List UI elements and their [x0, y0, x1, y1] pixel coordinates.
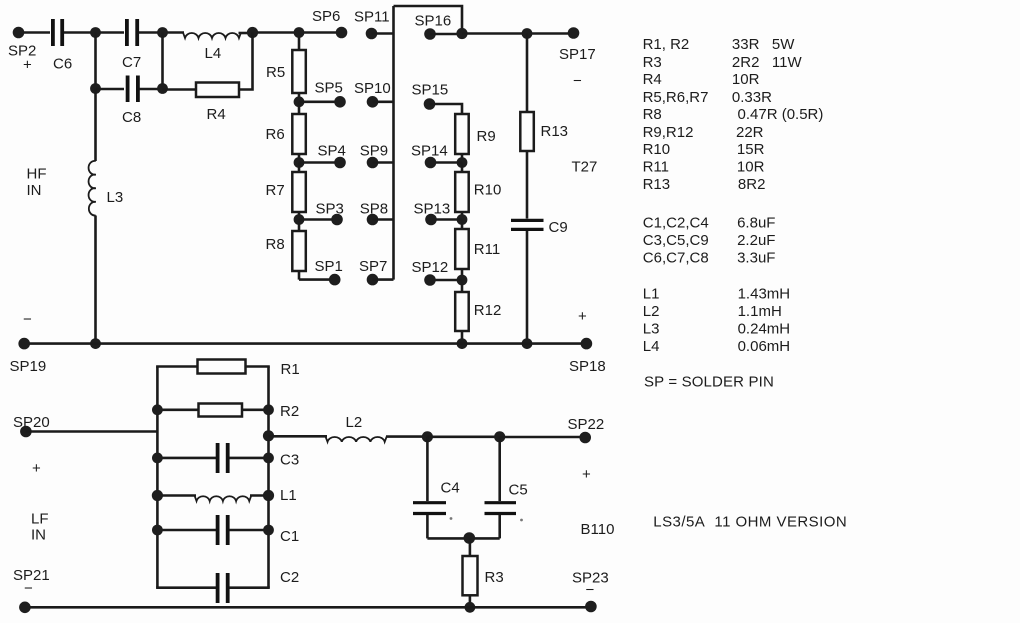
wire L4 node C to R5 top and SP6	[253, 31, 342, 34]
label LF IN	[31, 511, 49, 544]
value label R8 = 0.47R (0.5R)	[643, 106, 824, 123]
svg-text:L2: L2	[346, 414, 363, 431]
svg-text:SP9: SP9	[360, 143, 388, 160]
bus top link to SP16 node	[394, 6, 463, 34]
wire C7 to node B	[139, 31, 184, 34]
svg-text:+: +	[23, 57, 32, 74]
value label R11 = 10R	[643, 158, 765, 175]
resistor R4	[196, 83, 239, 124]
value label R4 = 10R	[643, 71, 760, 88]
svg-text:−: −	[586, 582, 595, 599]
svg-text:IN: IN	[27, 182, 42, 199]
svg-text:0.47R (0.5R): 0.47R (0.5R)	[738, 106, 824, 123]
svg-text:SP16: SP16	[415, 13, 452, 30]
svg-text:6.8uF: 6.8uF	[737, 215, 775, 232]
svg-text:SP17: SP17	[559, 46, 596, 63]
LF bottom rail wire	[25, 606, 591, 609]
svg-text:C5: C5	[509, 482, 528, 499]
wire node D to SP17	[462, 32, 574, 35]
solder pin SP20	[13, 414, 50, 477]
speck near C4	[450, 517, 453, 520]
node C1 left	[152, 525, 163, 536]
wire C5 bottom lead	[498, 515, 501, 538]
wire L2 to node F	[386, 435, 427, 438]
svg-text:−: −	[24, 580, 33, 597]
node R5 top	[294, 27, 305, 38]
svg-text:SP3: SP3	[316, 200, 344, 217]
solder pin SP9	[360, 143, 388, 169]
node K1	[457, 157, 468, 168]
svg-text:SP22: SP22	[568, 416, 605, 433]
node J2	[294, 157, 305, 168]
svg-text:−: −	[23, 311, 32, 328]
wire node H to R3	[469, 538, 472, 556]
svg-text:R3: R3	[643, 54, 662, 71]
node J3	[294, 214, 305, 225]
svg-text:10R: 10R	[732, 71, 760, 88]
svg-text:R13: R13	[541, 123, 569, 140]
svg-text:R8: R8	[643, 106, 662, 123]
capacitor C4	[413, 480, 460, 514]
svg-text:R10: R10	[474, 181, 502, 198]
wire SP16 to node D	[430, 33, 462, 36]
svg-text:R13: R13	[643, 176, 671, 193]
wire node F to node G	[427, 435, 499, 438]
svg-text:C9: C9	[549, 219, 568, 236]
svg-text:R8: R8	[266, 236, 285, 253]
wire right bus to L2	[269, 435, 328, 438]
solder pin SP8	[360, 200, 388, 225]
svg-text:C2: C2	[280, 569, 299, 586]
svg-text:2.2uF: 2.2uF	[737, 232, 775, 249]
wire R4 up to node C	[239, 33, 253, 90]
node L1 left	[152, 490, 163, 501]
resistor R10	[455, 163, 501, 221]
wire B2 to R4	[163, 88, 197, 91]
wire SP9 to bus	[373, 161, 394, 164]
inductor L1	[195, 487, 297, 504]
wire R3 to LF bottom rail	[469, 595, 472, 607]
wire C4-C5 bottom connector	[427, 537, 499, 540]
label HF IN	[27, 166, 47, 200]
svg-text:R11: R11	[643, 158, 669, 175]
solder pin SP19	[10, 311, 47, 375]
wire R2 right	[242, 408, 269, 411]
svg-text:IN: IN	[31, 527, 46, 544]
solder pin SP14	[411, 143, 448, 169]
svg-text:R11: R11	[474, 241, 500, 258]
value label C3,C5,C9 = 2.2uF	[643, 232, 776, 249]
svg-text:R1: R1	[281, 361, 300, 378]
svg-text:R12: R12	[474, 302, 502, 319]
node K3	[457, 275, 468, 286]
svg-text:R4: R4	[643, 71, 662, 88]
svg-text:SP5: SP5	[315, 80, 343, 97]
wire C3 right	[229, 457, 268, 460]
resistor R5	[266, 33, 306, 103]
resistor R7	[266, 163, 306, 221]
wire SP15 to R9 top	[430, 104, 463, 114]
wire top edge left	[156, 365, 197, 368]
svg-text:SP7: SP7	[359, 258, 387, 275]
svg-text:SP4: SP4	[318, 143, 346, 160]
svg-text:L2: L2	[643, 303, 660, 320]
svg-text:SP6: SP6	[312, 8, 340, 25]
node R2 right	[263, 404, 274, 415]
svg-text:C3,C5,C9: C3,C5,C9	[643, 232, 709, 249]
value label C1,C2,C4 = 6.8uF	[643, 215, 776, 232]
resistor R11	[455, 220, 500, 281]
svg-text:L4: L4	[643, 338, 660, 355]
svg-text:L4: L4	[205, 45, 222, 62]
svg-text:15R: 15R	[737, 141, 765, 158]
svg-text:B110: B110	[581, 521, 615, 538]
svg-text:SP10: SP10	[354, 80, 391, 97]
value label R10 = 15R	[643, 141, 765, 158]
svg-text:SP14: SP14	[411, 143, 448, 160]
wire R13 to C9	[526, 151, 529, 219]
wire C8 to node B2	[140, 88, 163, 91]
solder pin SP10	[354, 80, 391, 108]
svg-text:0.06mH: 0.06mH	[738, 338, 791, 355]
wire node G to SP22	[500, 436, 586, 439]
wire bottom edge right	[229, 586, 269, 589]
LF right bus	[267, 367, 270, 588]
svg-text:10R: 10R	[737, 158, 765, 175]
svg-text:HF: HF	[27, 166, 47, 183]
node A2	[90, 83, 101, 94]
capacitor C8	[122, 76, 141, 127]
node E (R13 top)	[522, 28, 533, 39]
bus vertical line	[392, 6, 395, 280]
solder pin SP11	[354, 9, 390, 40]
svg-text:R4: R4	[207, 106, 226, 123]
wire K1 to SP14	[431, 161, 463, 164]
svg-text:R6: R6	[266, 126, 285, 143]
node R3 bottom	[465, 602, 476, 613]
wire K2 to SP13	[431, 218, 462, 221]
svg-text:+: +	[582, 466, 591, 483]
svg-text:R5,R6,R7: R5,R6,R7	[643, 89, 709, 106]
inductor L2	[326, 414, 387, 442]
svg-text:1.43mH: 1.43mH	[738, 286, 791, 303]
svg-text:0.24mH: 0.24mH	[738, 320, 791, 337]
capacitor C3	[218, 443, 300, 473]
resistor R12	[455, 280, 501, 344]
solder pin SP16	[415, 13, 452, 40]
svg-text:+: +	[578, 308, 587, 325]
node C3 right	[263, 453, 274, 464]
node R12 bottom	[457, 338, 468, 349]
wire SP7 to bus	[373, 278, 394, 281]
svg-text:SP11: SP11	[354, 9, 390, 26]
wire SP20 to LF left bus	[26, 430, 158, 433]
svg-text:LF: LF	[31, 511, 49, 528]
svg-text:L3: L3	[643, 320, 660, 337]
wire L1 right	[250, 494, 269, 497]
wire C4 bottom lead	[426, 515, 429, 538]
svg-text:SP18: SP18	[569, 358, 606, 375]
solder pin SP7	[359, 258, 387, 285]
node B2	[157, 83, 168, 94]
wire A2 to C8	[96, 88, 125, 91]
svg-text:C4: C4	[441, 480, 460, 497]
wire C9 to HF bottom rail	[526, 231, 529, 344]
solder pin SP1	[315, 258, 343, 285]
solder pin SP18	[569, 308, 606, 375]
node J1	[294, 96, 305, 107]
svg-text:C1,C2,C4: C1,C2,C4	[643, 215, 709, 232]
value label L1 = 1.43mH	[643, 286, 790, 303]
resistor R1	[198, 360, 300, 379]
solder pin SP13	[414, 200, 451, 225]
wire SP11 to bus	[372, 32, 394, 35]
solder pin SP3	[316, 200, 344, 225]
svg-text:R5: R5	[266, 64, 285, 81]
inductor L3	[89, 161, 124, 216]
svg-text:C1: C1	[280, 528, 299, 545]
svg-text:R9,R12: R9,R12	[643, 124, 694, 141]
wire node E down to R13	[526, 34, 529, 113]
svg-text:SP15: SP15	[412, 82, 449, 99]
node C3 left	[152, 453, 163, 464]
wire top edge right	[246, 365, 270, 368]
capacitor C5	[485, 482, 528, 514]
svg-text:R3: R3	[485, 569, 504, 586]
resistor R2	[199, 403, 300, 420]
inductor L4	[183, 33, 253, 63]
value label R9,R12 = 22R	[643, 124, 764, 141]
node L3 bottom	[90, 338, 101, 349]
node C1 right	[263, 525, 274, 536]
value label L4 = 0.06mH	[643, 338, 790, 355]
wire R8 bottom to SP1	[299, 278, 335, 281]
svg-text:C6: C6	[53, 56, 72, 73]
value label C6,C7,C8 = 3.3uF	[643, 250, 776, 267]
speck near C5	[520, 519, 523, 522]
node L1 right	[263, 490, 274, 501]
svg-text:C8: C8	[122, 109, 141, 126]
solder pin SP17	[559, 27, 596, 89]
wire R2 left	[157, 408, 198, 411]
svg-text:SP12: SP12	[412, 259, 449, 276]
wire K3 to SP12	[430, 279, 462, 282]
svg-text:33R 5W: 33R 5W	[732, 36, 795, 53]
svg-text:SP19: SP19	[10, 358, 47, 375]
solder pin SP5	[315, 80, 346, 108]
wire C4 top lead	[426, 437, 429, 501]
wire SP8 to bus	[373, 218, 394, 221]
node R2 left	[152, 404, 163, 415]
svg-text:L3: L3	[107, 189, 124, 206]
svg-text:1.1mH: 1.1mH	[738, 303, 782, 320]
solder pin SP12	[412, 259, 449, 286]
solder pin SP2	[8, 27, 36, 74]
node A down-wire	[94, 33, 97, 89]
wire J3 to SP3	[299, 218, 337, 221]
wire J2 to SP4	[299, 161, 340, 164]
wire L1 left	[157, 494, 196, 497]
value label R13 = 8R2	[643, 176, 766, 193]
svg-text:R1, R2: R1, R2	[643, 36, 690, 53]
wire L3 to HF bottom rail	[94, 216, 97, 344]
svg-text:22R: 22R	[736, 124, 764, 141]
wire node A2 down to L3	[94, 89, 97, 162]
svg-text:+: +	[32, 460, 41, 477]
solder pin SP21	[13, 567, 50, 613]
wire C1 right	[229, 529, 268, 532]
svg-text:2R2 11W: 2R2 11W	[732, 54, 803, 71]
resistor R3	[463, 556, 504, 595]
node L2 takeoff	[263, 430, 274, 441]
svg-text:SP1: SP1	[315, 258, 343, 275]
resistor R13	[520, 112, 568, 151]
svg-text:R2: R2	[280, 403, 299, 420]
svg-text:0.33R: 0.33R	[732, 89, 772, 106]
solder pin SP23	[572, 570, 609, 613]
wire SP10 to bus	[373, 101, 394, 104]
svg-text:8R2: 8R2	[738, 176, 766, 193]
wire C3 left	[157, 457, 216, 460]
wire C5 top lead	[498, 437, 501, 501]
node G (C5 top)	[494, 431, 505, 442]
svg-text:SP8: SP8	[360, 200, 388, 217]
capacitor C9	[511, 219, 568, 236]
value label R1,R2 = 33R 5W	[643, 36, 796, 53]
node H (R3 top)	[464, 532, 476, 544]
wire SP2 to C6	[24, 31, 50, 34]
node A	[90, 27, 101, 38]
svg-text:SP20: SP20	[13, 414, 50, 431]
solder pin SP15	[412, 82, 449, 110]
node C9 bottom	[522, 338, 533, 349]
solder pin SP6	[312, 8, 347, 38]
wire C6 to node A and on to C7	[64, 31, 124, 34]
capacitor C1	[218, 515, 300, 545]
wire bottom edge left	[156, 586, 216, 589]
HF bottom rail wire	[24, 342, 586, 345]
wire J1 to SP5	[299, 101, 340, 104]
svg-text:C6,C7,C8: C6,C7,C8	[643, 250, 709, 267]
solder pin SP22	[568, 416, 605, 483]
svg-text:R7: R7	[266, 182, 285, 199]
node B	[157, 27, 168, 38]
wire C1 left	[157, 529, 216, 532]
resistor R9	[455, 114, 495, 163]
svg-text:SP = SOLDER PIN: SP = SOLDER PIN	[644, 373, 774, 390]
node D	[456, 28, 467, 39]
node F (C4 top)	[422, 431, 433, 442]
value label L2 = 1.1mH	[643, 303, 782, 320]
svg-text:3.3uF: 3.3uF	[737, 250, 775, 267]
LF left bus	[156, 367, 159, 588]
solder pin SP4	[318, 143, 346, 169]
capacitor C2	[218, 569, 300, 603]
svg-text:C7: C7	[122, 54, 141, 71]
node B down-wire	[161, 33, 164, 89]
capacitor C6	[53, 19, 72, 73]
svg-text:−: −	[573, 73, 582, 90]
svg-text:L1: L1	[643, 286, 660, 303]
resistor R8	[266, 220, 306, 280]
svg-text:L1: L1	[280, 487, 297, 504]
svg-text:R9: R9	[477, 128, 496, 145]
svg-text:SP13: SP13	[414, 200, 451, 217]
value label L3 = 0.24mH	[643, 320, 790, 337]
svg-text:LS3/5A 11 OHM VERSION: LS3/5A 11 OHM VERSION	[653, 513, 847, 530]
capacitor C7	[122, 19, 141, 71]
node C	[247, 27, 258, 38]
node K2	[457, 214, 468, 225]
svg-text:R10: R10	[643, 141, 671, 158]
svg-text:T27: T27	[572, 159, 598, 176]
value label R3 = 2R2 11W	[643, 54, 803, 71]
value label R5,R6,R7 = 0.33R	[643, 89, 772, 106]
svg-text:C3: C3	[280, 452, 299, 469]
resistor R6	[266, 102, 306, 163]
